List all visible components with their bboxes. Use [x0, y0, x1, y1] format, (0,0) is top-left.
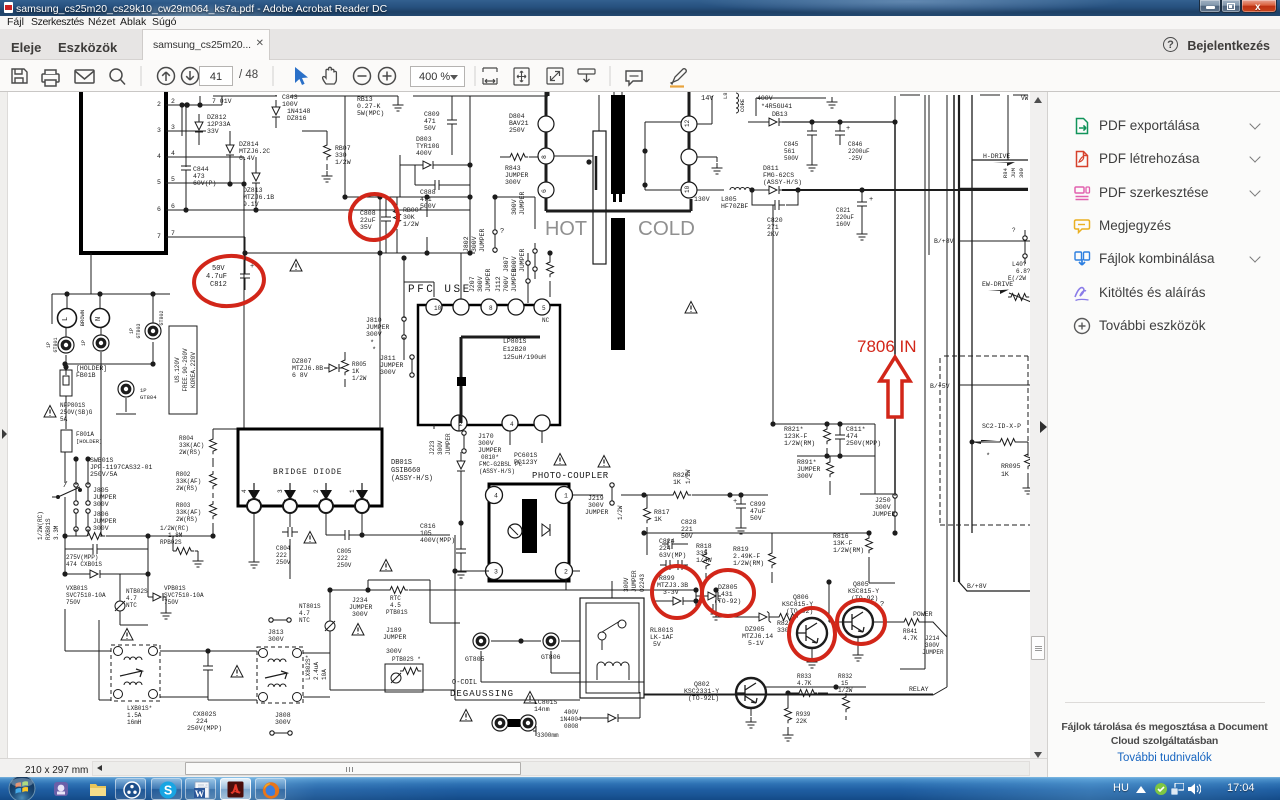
svg-text:EW-DRIVE: EW-DRIVE	[982, 281, 1013, 288]
svg-text:2200uF: 2200uF	[848, 148, 870, 155]
svg-text:15: 15	[841, 680, 849, 687]
svg-text:300V: 300V	[366, 331, 382, 338]
svg-text:NFP801S: NFP801S	[60, 402, 86, 409]
svg-text:PFC USE: PFC USE	[408, 284, 472, 296]
svg-text:50V: 50V	[681, 533, 693, 540]
svg-text:1/2W(RC): 1/2W(RC)	[37, 511, 44, 540]
svg-text:(TO-92L): (TO-92L)	[688, 695, 719, 702]
svg-text:10: 10	[684, 185, 691, 193]
svg-text:J250: J250	[875, 497, 891, 504]
svg-text:R803: R803	[176, 502, 191, 509]
svg-text:1/2W(RM): 1/2W(RM)	[733, 560, 764, 567]
svg-text:6 8V: 6 8V	[292, 372, 308, 379]
svg-text:SVC7510-10A: SVC7510-10A	[164, 592, 204, 599]
svg-text:5-1V: 5-1V	[748, 640, 764, 647]
svg-text:4.7K: 4.7K	[797, 680, 812, 687]
svg-text:+: +	[846, 125, 850, 133]
svg-text:NTB02S: NTB02S	[126, 588, 148, 595]
svg-text:+: +	[250, 263, 254, 271]
svg-text:JUMPER: JUMPER	[631, 570, 638, 592]
svg-text:1/2W: 1/2W	[403, 221, 419, 228]
svg-text:10: 10	[434, 305, 442, 312]
svg-text:B/+8V: B/+8V	[967, 583, 987, 590]
svg-text:DZ813: DZ813	[243, 187, 263, 194]
svg-text:J807: J807	[503, 256, 510, 272]
svg-text:3.3M: 3.3M	[53, 525, 60, 540]
svg-text:E12B20: E12B20	[503, 346, 527, 353]
svg-text:221: 221	[681, 526, 693, 533]
svg-text:6.8?: 6.8?	[1016, 268, 1030, 275]
svg-text:C824: C824	[659, 538, 675, 545]
svg-text:16mH: 16mH	[127, 719, 142, 726]
svg-text:C828: C828	[681, 519, 697, 526]
svg-text:MTZJ6.1B: MTZJ6.1B	[243, 194, 274, 201]
svg-text:300V: 300V	[268, 636, 284, 643]
svg-text:5: 5	[171, 176, 175, 183]
svg-text:R833: R833	[797, 673, 812, 680]
svg-text:GSIB660: GSIB660	[391, 467, 420, 475]
svg-text:SWB01S: SWB01S	[90, 457, 114, 464]
svg-text:DZ816: DZ816	[287, 115, 307, 122]
svg-text:JUMPER: JUMPER	[380, 362, 404, 369]
svg-text:C804: C804	[276, 545, 291, 552]
svg-text:473: 473	[193, 173, 205, 180]
svg-text:-25V: -25V	[848, 155, 863, 162]
svg-text:B/+8V: B/+8V	[934, 238, 954, 245]
svg-text:NTC: NTC	[299, 617, 310, 624]
svg-text:0.27-K: 0.27-K	[357, 103, 381, 110]
svg-text:160V: 160V	[836, 221, 851, 228]
svg-text:300V: 300V	[797, 473, 813, 480]
svg-text:14V: 14V	[701, 95, 714, 103]
svg-text:NC: NC	[542, 317, 550, 324]
svg-text:1P: 1P	[140, 387, 147, 394]
svg-text:4: 4	[510, 421, 514, 428]
svg-text:12P33A: 12P33A	[207, 121, 231, 128]
svg-text:1/2W(RM): 1/2W(RM)	[784, 440, 815, 447]
svg-text:?: ?	[500, 228, 504, 236]
svg-text:105: 105	[420, 530, 432, 537]
svg-text:MTZJ6.14: MTZJ6.14	[742, 633, 773, 640]
svg-text:250V: 250V	[509, 127, 525, 134]
svg-text:250V(MPP): 250V(MPP)	[187, 725, 222, 732]
svg-text:10A: 10A	[321, 669, 328, 680]
svg-text:DZ812: DZ812	[207, 114, 227, 121]
svg-text:[HOLDER]: [HOLDER]	[76, 438, 102, 445]
svg-text:R843: R843	[505, 165, 521, 172]
svg-text:TYR10G: TYR10G	[416, 143, 440, 150]
svg-text:4.5: 4.5	[390, 602, 401, 609]
svg-text:/: /	[63, 481, 68, 490]
svg-text:C809: C809	[424, 111, 440, 118]
svg-text:400V: 400V	[564, 709, 579, 716]
svg-text:250V(MPP): 250V(MPP)	[846, 440, 881, 447]
svg-text:2: 2	[564, 569, 568, 576]
svg-text:LP801S: LP801S	[503, 338, 527, 345]
svg-text:W: W	[194, 790, 204, 799]
svg-text:R832: R832	[838, 673, 853, 680]
svg-text:250V(SB)G: 250V(SB)G	[60, 409, 93, 416]
svg-text:RB00*: RB00*	[403, 207, 423, 214]
svg-text:JUMPER: JUMPER	[93, 494, 117, 501]
svg-text:DZ805: DZ805	[718, 584, 738, 591]
svg-text:300V: 300V	[925, 642, 940, 649]
svg-text:R899: R899	[659, 575, 675, 582]
svg-text:50V: 50V	[750, 515, 762, 522]
svg-text:22K: 22K	[796, 718, 807, 725]
svg-text:561: 561	[784, 148, 795, 155]
svg-text:22uF: 22uF	[360, 217, 376, 224]
svg-text:224: 224	[196, 718, 208, 725]
svg-text:J223: J223	[429, 440, 436, 455]
svg-text:500V: 500V	[784, 155, 799, 162]
svg-text:J207: J207	[469, 276, 476, 292]
svg-text:R819: R819	[733, 546, 749, 553]
svg-text:0808: 0808	[564, 723, 579, 730]
svg-text:4.7K: 4.7K	[903, 635, 918, 642]
svg-text:130V: 130V	[694, 196, 710, 203]
svg-text:JUMPER: JUMPER	[479, 228, 486, 252]
svg-text:5W(MPC): 5W(MPC)	[357, 110, 384, 117]
svg-text:431: 431	[721, 591, 733, 598]
svg-text:JUMPER: JUMPER	[797, 466, 821, 473]
svg-text:PC601S: PC601S	[514, 452, 538, 459]
svg-text:1/2W: 1/2W	[617, 505, 624, 520]
svg-text:4: 4	[241, 489, 248, 493]
svg-text:60V(P): 60V(P)	[193, 180, 216, 187]
svg-text:GT803: GT803	[136, 323, 142, 338]
svg-text:H-DRIVE: H-DRIVE	[983, 153, 1010, 160]
svg-text:3300mm: 3300mm	[537, 732, 559, 739]
svg-text:C821: C821	[836, 207, 851, 214]
svg-text:L: L	[62, 317, 70, 321]
svg-text:RPB02S: RPB02S	[160, 539, 182, 546]
svg-text:13K-F: 13K-F	[833, 540, 853, 547]
svg-text:1K: 1K	[673, 479, 681, 486]
svg-text:C812: C812	[210, 281, 227, 289]
svg-text:33K(AF): 33K(AF)	[176, 478, 201, 485]
svg-text:30K: 30K	[403, 214, 415, 221]
svg-text:1N4004: 1N4004	[560, 716, 582, 723]
svg-text:2.49K-F: 2.49K-F	[733, 553, 760, 560]
svg-text:4.7uF: 4.7uF	[206, 273, 227, 281]
svg-text:471: 471	[424, 118, 436, 125]
svg-text:300V: 300V	[471, 236, 478, 252]
svg-text:PC123Y: PC123Y	[514, 459, 538, 466]
svg-text:C811*: C811*	[846, 426, 866, 433]
svg-text:224: 224	[659, 545, 671, 552]
svg-text:GT804: GT804	[140, 394, 157, 401]
svg-text:50V: 50V	[212, 265, 225, 273]
svg-text:100V: 100V	[282, 101, 298, 108]
svg-text:(ASSY-H/S): (ASSY-H/S)	[763, 179, 802, 186]
svg-text:C846: C846	[848, 141, 863, 148]
svg-text:J806: J806	[93, 511, 109, 518]
svg-text:J802: J802	[463, 236, 470, 252]
svg-text:NT801S: NT801S	[299, 603, 321, 610]
svg-text:MTZJ3.3B: MTZJ3.3B	[657, 582, 688, 589]
svg-text:O-COIL: O-COIL	[452, 679, 477, 687]
svg-text:222: 222	[337, 555, 348, 562]
svg-text:R841: R841	[903, 628, 918, 635]
svg-text:[HOLDER]: [HOLDER]	[76, 365, 107, 372]
svg-text:2W(RS): 2W(RS)	[176, 485, 198, 492]
svg-text:33V: 33V	[207, 128, 219, 135]
svg-text:JUMPER: JUMPER	[366, 324, 390, 331]
svg-text:JUMPER: JUMPER	[485, 268, 492, 292]
svg-text:JUMPER: JUMPER	[349, 604, 373, 611]
svg-text:2W(RS): 2W(RS)	[179, 449, 201, 456]
svg-text:5: 5	[542, 305, 546, 312]
svg-text:300V: 300V	[511, 199, 518, 215]
svg-text:JUMPER: JUMPER	[585, 509, 609, 516]
svg-text:RB07: RB07	[335, 145, 351, 152]
svg-text:JUMPER: JUMPER	[505, 172, 529, 179]
svg-text:5V: 5V	[653, 641, 661, 648]
svg-text:RB13: RB13	[357, 96, 373, 103]
svg-text:250V/5A: 250V/5A	[90, 471, 117, 478]
svg-text:R891*: R891*	[797, 459, 817, 466]
svg-text:C843: C843	[282, 94, 298, 101]
svg-text:C808: C808	[360, 210, 376, 217]
svg-text:KSC2331-Y: KSC2331-Y	[684, 688, 719, 695]
svg-text:1K: 1K	[352, 368, 360, 375]
svg-text:R84: R84	[1002, 167, 1009, 178]
svg-text:750V: 750V	[66, 599, 81, 606]
svg-text:C816: C816	[420, 523, 436, 530]
svg-text:D803: D803	[416, 136, 432, 143]
svg-text:400V(MPP): 400V(MPP)	[420, 537, 455, 544]
svg-text:J808: J808	[275, 712, 291, 719]
svg-text:1: 1	[564, 493, 568, 500]
svg-text:JUMPER: JUMPER	[93, 518, 117, 525]
svg-text:(ASSY-H/S): (ASSY-H/S)	[391, 475, 433, 483]
svg-text:J810: J810	[366, 317, 382, 324]
svg-text:J112: J112	[495, 276, 502, 292]
svg-text:300V: 300V	[386, 648, 402, 655]
svg-text:J811: J811	[380, 355, 396, 362]
svg-text:FMC-G2BSL: FMC-G2BSL	[479, 461, 512, 468]
svg-text:300V: 300V	[477, 276, 484, 292]
svg-text:RXB01S: RXB01S	[45, 518, 52, 540]
svg-text:FMG-62CS: FMG-62CS	[763, 172, 794, 179]
svg-text:DEGAUSSING: DEGAUSSING	[450, 689, 514, 699]
svg-text:2: 2	[171, 98, 175, 105]
svg-text:33K(AC): 33K(AC)	[179, 442, 204, 449]
svg-text:4: 4	[494, 493, 498, 500]
svg-text:*: *	[372, 347, 376, 355]
svg-text:COLD: COLD	[638, 218, 695, 240]
svg-text:LK-1AF: LK-1AF	[650, 634, 674, 641]
svg-text:4.7: 4.7	[126, 595, 137, 602]
svg-text:JUMPER: JUMPER	[872, 511, 896, 518]
svg-text:J813: J813	[268, 629, 284, 636]
svg-text:*: *	[986, 453, 990, 461]
svg-text:C845: C845	[784, 141, 799, 148]
svg-text:DZ807: DZ807	[292, 358, 312, 365]
svg-text:US.120V: US.120V	[174, 357, 181, 383]
svg-text:8: 8	[541, 155, 548, 159]
svg-text:6: 6	[157, 206, 161, 213]
svg-text:HF70ZBF: HF70ZBF	[721, 203, 748, 210]
svg-text:7806 IN: 7806 IN	[857, 337, 917, 356]
svg-text:RL801S: RL801S	[650, 627, 674, 634]
svg-text:R802: R802	[176, 471, 191, 478]
svg-text:BAV21: BAV21	[509, 120, 529, 127]
svg-text:POWER: POWER	[913, 611, 933, 618]
svg-text:D804: D804	[509, 113, 525, 120]
svg-text:L40?: L40?	[1012, 261, 1027, 268]
svg-text:D811: D811	[763, 165, 779, 172]
svg-text:GT802: GT802	[159, 310, 165, 325]
svg-text:DZ814: DZ814	[239, 141, 259, 148]
svg-text:VPB01S: VPB01S	[164, 585, 186, 592]
svg-text:300V: 300V	[275, 719, 291, 726]
svg-text:7: 7	[157, 233, 161, 240]
svg-text:SVC7510-10A: SVC7510-10A	[66, 592, 106, 599]
svg-text:+: +	[869, 196, 873, 204]
svg-text:35V: 35V	[360, 224, 372, 231]
svg-text:Q805: Q805	[853, 581, 869, 588]
svg-text:R821*: R821*	[784, 426, 804, 433]
svg-text:CORE: CORE	[739, 98, 746, 112]
svg-text:1: 1	[349, 489, 356, 493]
svg-text:GT805: GT805	[465, 656, 485, 663]
svg-text:300V: 300V	[437, 440, 444, 455]
svg-text:300V: 300V	[93, 525, 109, 532]
svg-text:JUMPER: JUMPER	[383, 634, 407, 641]
svg-text:FREE.90-260V: FREE.90-260V	[182, 348, 189, 392]
svg-text:123K-F: 123K-F	[784, 433, 808, 440]
svg-text:J219: J219	[588, 495, 604, 502]
svg-text:R817: R817	[654, 509, 670, 516]
svg-text:RELAY: RELAY	[909, 686, 929, 693]
svg-text:1.5A: 1.5A	[127, 712, 142, 719]
svg-text:300V: 300V	[380, 369, 396, 376]
svg-text:KSC815-Y: KSC815-Y	[848, 588, 879, 595]
svg-text:KOREA.220V: KOREA.220V	[190, 352, 197, 388]
svg-text:R805: R805	[352, 361, 367, 368]
svg-text:C805: C805	[337, 548, 352, 555]
svg-text:J234: J234	[352, 597, 368, 604]
svg-text:C899: C899	[750, 501, 766, 508]
svg-text:1/2W: 1/2W	[685, 469, 692, 484]
svg-text:300V: 300V	[93, 501, 109, 508]
svg-text:PTB02S *: PTB02S *	[392, 656, 421, 663]
svg-text:5: 5	[157, 179, 161, 186]
svg-text:N: N	[95, 317, 103, 321]
svg-text:JUMPER: JUMPER	[511, 268, 518, 292]
svg-text:6.4V: 6.4V	[239, 155, 255, 162]
svg-text:12: 12	[684, 119, 691, 127]
svg-text:300V: 300V	[875, 504, 891, 511]
svg-text:J805: J805	[93, 487, 109, 494]
svg-text:MTZJ6.8B: MTZJ6.8B	[292, 365, 323, 372]
svg-text:VW: VW	[1021, 95, 1029, 102]
svg-text:3: 3	[157, 127, 161, 134]
svg-text:1/2W: 1/2W	[335, 159, 351, 166]
svg-text:JUM: JUM	[1010, 168, 1017, 178]
svg-text:4: 4	[171, 150, 175, 157]
svg-text:L805: L805	[721, 196, 737, 203]
svg-text:63V(MP): 63V(MP)	[659, 552, 686, 559]
svg-text:8: 8	[489, 305, 493, 312]
svg-text:7 01V: 7 01V	[212, 98, 232, 105]
svg-text:DB01S: DB01S	[391, 459, 412, 467]
svg-text:1K: 1K	[1001, 471, 1009, 478]
svg-text:E(/2W: E(/2W	[1008, 275, 1026, 282]
svg-text:R816: R816	[833, 533, 849, 540]
svg-text:GT801: GT801	[53, 337, 59, 352]
svg-text:1K: 1K	[654, 516, 662, 523]
svg-text:R818: R818	[696, 543, 712, 550]
svg-text:2W(RS): 2W(RS)	[176, 516, 198, 523]
svg-text:DB13: DB13	[772, 111, 788, 118]
svg-text:1P: 1P	[81, 340, 87, 346]
svg-text:3: 3	[277, 489, 284, 493]
svg-text:2: 2	[157, 101, 161, 108]
svg-text:50V: 50V	[424, 125, 436, 132]
svg-text:BRIDGE DIODE: BRIDGE DIODE	[273, 468, 343, 477]
svg-text:LX802S*: LX802S*	[305, 655, 312, 680]
svg-text:2: 2	[313, 489, 320, 493]
svg-text:JUMPER: JUMPER	[519, 191, 526, 215]
svg-text:1/2W(RM): 1/2W(RM)	[833, 547, 864, 554]
svg-text:474: 474	[846, 433, 858, 440]
svg-text:J189: J189	[386, 627, 402, 634]
svg-text:250V: 250V	[276, 559, 291, 566]
svg-text:1.8M: 1.8M	[168, 532, 183, 539]
svg-text:MTZJ6.2C: MTZJ6.2C	[239, 148, 270, 155]
svg-text:Q802: Q802	[694, 681, 710, 688]
svg-text:220uF: 220uF	[836, 214, 854, 221]
svg-text:*4R5GU41: *4R5GU41	[761, 103, 792, 110]
svg-text:J170: J170	[478, 433, 494, 440]
svg-text:300V: 300V	[588, 502, 604, 509]
svg-text:FB01B: FB01B	[76, 372, 96, 379]
svg-text:1/2W(RC): 1/2W(RC)	[160, 525, 189, 532]
svg-text:0810*: 0810*	[481, 454, 499, 461]
svg-text:VXB01S: VXB01S	[66, 585, 88, 592]
svg-text:125uH/190uH: 125uH/190uH	[503, 354, 546, 361]
svg-text:1/2W: 1/2W	[838, 687, 853, 694]
svg-text:NTC: NTC	[126, 602, 137, 609]
svg-text:LXB01S*: LXB01S*	[127, 705, 152, 712]
svg-text:02243: 02243	[639, 574, 646, 592]
svg-text:33K(AF): 33K(AF)	[176, 509, 201, 516]
svg-text:JUMPER: JUMPER	[519, 248, 526, 272]
svg-text:BROWN: BROWN	[79, 310, 86, 327]
svg-text:JUMPER: JUMPER	[478, 447, 502, 454]
svg-text:3: 3	[171, 124, 175, 131]
svg-text:+: +	[733, 498, 737, 506]
svg-text:47uF: 47uF	[750, 508, 766, 515]
svg-text:300V: 300V	[352, 611, 368, 618]
svg-text:JUMPER: JUMPER	[922, 649, 944, 656]
svg-text:250V: 250V	[337, 562, 352, 569]
svg-text:275V(MPP): 275V(MPP)	[66, 554, 98, 561]
svg-text:DZ905: DZ905	[745, 626, 765, 633]
svg-text:300V: 300V	[505, 179, 521, 186]
svg-text:SC2-ID-X-P: SC2-ID-X-P	[982, 423, 1021, 430]
svg-text:Q806: Q806	[793, 594, 809, 601]
svg-text:7: 7	[171, 230, 175, 237]
svg-text:C844: C844	[193, 166, 209, 173]
svg-text:6: 6	[171, 203, 175, 210]
svg-text:L815: L815	[722, 92, 729, 99]
svg-text:F801A: F801A	[76, 431, 94, 438]
svg-text:2.4uA: 2.4uA	[313, 662, 320, 680]
